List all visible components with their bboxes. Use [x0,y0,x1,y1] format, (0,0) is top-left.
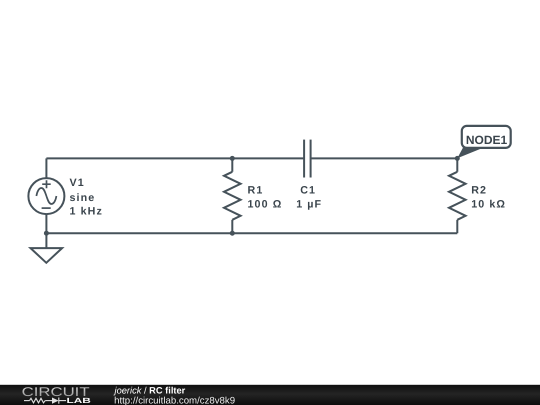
svg-text:10 kΩ: 10 kΩ [471,198,506,210]
svg-text:1 kHz: 1 kHz [70,205,103,217]
svg-text:R1: R1 [248,185,264,197]
svg-text:1 µF: 1 µF [296,198,322,210]
svg-text:100 Ω: 100 Ω [248,198,283,210]
svg-text:sine: sine [70,192,96,204]
svg-text:C1: C1 [300,185,316,197]
svg-text:R2: R2 [471,185,487,197]
svg-text:V1: V1 [70,177,85,189]
svg-text:LAB: LAB [67,396,92,405]
svg-text:joerick / RC filter: joerick / RC filter [113,385,186,395]
svg-text:NODE1: NODE1 [466,133,508,147]
svg-text:http://circuitlab.com/cz8v8k9: http://circuitlab.com/cz8v8k9 [114,396,235,405]
